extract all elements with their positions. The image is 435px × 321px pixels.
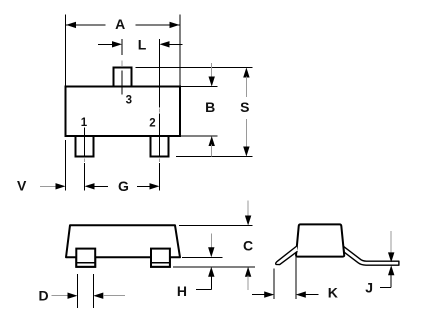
dimension H bottom shaft — [210, 276, 212, 290]
pin 3 tab (top view) — [114, 68, 132, 87]
dimension L left arrow shaft — [98, 43, 113, 45]
dimension C bottom shaft — [247, 276, 249, 291]
svg-text:J: J — [365, 280, 373, 296]
dimension K left arrowhead — [264, 291, 274, 297]
svg-text:B: B — [205, 99, 215, 115]
extension line A right (body right edge extended up) — [179, 15, 181, 87]
dimension H top shaft — [210, 234, 212, 250]
dimension V arrowhead — [56, 183, 66, 189]
svg-text:K: K — [328, 285, 338, 301]
left gull-wing lead — [276, 246, 298, 265]
dimension L arrowhead pointing right — [112, 41, 122, 47]
extension line seating plane (right) — [176, 156, 253, 158]
dimension V arrow shaft — [40, 185, 57, 187]
dimension A arrowhead right — [170, 22, 180, 28]
dimension L right arrow shaft — [169, 43, 182, 45]
centerline pin 3 — [121, 39, 123, 94]
dimension D left arrowhead — [68, 293, 78, 299]
dimension J bottom shaft — [390, 274, 392, 288]
dimension B top arrowhead — [209, 77, 215, 87]
svg-text:1: 1 — [81, 117, 88, 129]
svg-text:3: 3 — [126, 95, 132, 107]
pin 2 lead (top view) — [151, 136, 169, 157]
dimension K right arrowhead — [296, 291, 306, 297]
package body (end view) — [296, 224, 344, 256]
dimension C top shaft — [247, 201, 249, 218]
extension line K left — [273, 269, 275, 299]
dimension H top arrowhead — [208, 247, 214, 257]
package body (side view) — [66, 225, 180, 257]
extension line V (body left edge extended down) — [65, 140, 67, 191]
svg-text:D: D — [39, 287, 49, 303]
dimension S bottom shaft — [245, 119, 247, 148]
extension line pin3 top (right) — [136, 66, 253, 68]
dimension H connector — [196, 289, 211, 291]
dimension J connector — [380, 287, 391, 289]
dimension H bottom arrowhead — [208, 267, 214, 277]
dimension J top shaft — [390, 231, 392, 254]
dimension C top arrowhead — [245, 216, 251, 226]
pin 2 foot redraw — [151, 249, 170, 267]
dimension B top arrow shaft — [211, 63, 213, 79]
extension line body top (right) — [181, 86, 218, 88]
dimension G left arrowhead — [85, 183, 95, 189]
svg-text:H: H — [177, 283, 187, 299]
svg-text:C: C — [243, 237, 253, 253]
extension line D right — [92, 274, 94, 308]
package body (top view) — [66, 87, 181, 137]
dimension S bottom arrowhead — [243, 147, 249, 157]
centerline pin 2 — [159, 39, 161, 191]
extension line body bottom (right) — [181, 135, 218, 137]
dimension S top arrowhead — [243, 68, 249, 78]
svg-text:V: V — [17, 178, 27, 194]
dimension D left shaft — [52, 295, 69, 297]
dimension K left shaft — [252, 294, 266, 296]
pin 1 lead (top view) — [76, 136, 94, 157]
centerline pin 1 — [84, 128, 86, 191]
extension line body bottom (side view) — [182, 256, 223, 258]
dimension A arrowhead left — [66, 22, 76, 28]
dimension A line right segment — [136, 24, 180, 26]
dimension C bottom arrowhead — [245, 267, 251, 277]
pin 1 foot redraw — [76, 249, 95, 267]
dimension G right arrowhead — [150, 183, 160, 189]
svg-text:2: 2 — [149, 117, 155, 129]
svg-text:L: L — [138, 36, 147, 52]
pin 2 foot (side view) — [151, 249, 170, 267]
dimension S top shaft — [245, 77, 247, 98]
dimension B bottom arrow shaft — [211, 145, 213, 157]
extension line body top (side view) — [179, 225, 253, 227]
extension line seating plane (side view) — [173, 266, 255, 268]
dimension L arrowhead pointing left — [160, 41, 170, 47]
svg-text:A: A — [115, 16, 125, 32]
dimension K right shaft — [305, 294, 319, 296]
dimension D right shaft — [103, 295, 125, 297]
dimension J bottom arrowhead — [388, 265, 394, 275]
dimension D right arrowhead — [93, 293, 103, 299]
extension line A left (body left edge extended up) — [65, 15, 67, 87]
pin 1 foot (side view) — [76, 249, 95, 267]
dimension B bottom arrowhead — [209, 136, 215, 146]
extension line K right — [295, 257, 297, 299]
dimension J top arrowhead — [388, 252, 394, 262]
svg-text:S: S — [240, 99, 249, 115]
dimension A line left segment — [66, 24, 106, 26]
dimension G right shaft — [137, 185, 151, 187]
dimension G left shaft — [94, 185, 109, 187]
svg-text:G: G — [118, 178, 129, 194]
extension line D left — [77, 274, 79, 308]
right gull-wing lead — [343, 246, 399, 265]
